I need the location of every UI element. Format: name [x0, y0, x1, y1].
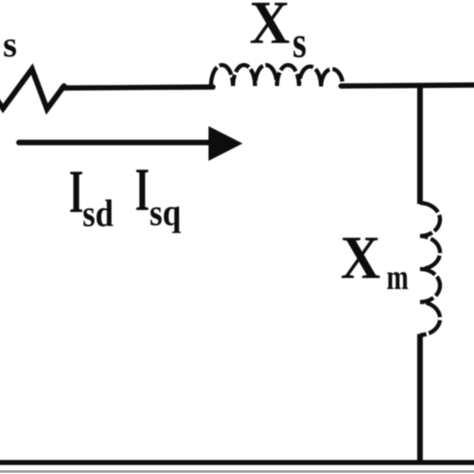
svg-text:sq: sq: [150, 192, 182, 234]
wire from Xm to bottom rail: [417, 334, 423, 462]
inductor Xs (coil, sketchy dashes): [211, 65, 343, 87]
bottom rail (bus line): [0, 460, 474, 465]
svg-text:X: X: [250, 0, 291, 57]
wire from resistor to inductor Xs: [62, 87, 213, 88]
svg-text:I: I: [135, 157, 150, 224]
svg-text:sd: sd: [83, 193, 114, 235]
resistor Rs (clipped at left edge): [0, 69, 64, 109]
svg-text:X: X: [341, 225, 381, 292]
current arrow Isd/Isq: [19, 140, 214, 146]
arrowhead: [209, 127, 242, 160]
svg-text:s: s: [293, 18, 307, 67]
svg-text:m: m: [387, 257, 409, 297]
grey scan artifact line at bottom: [0, 470, 474, 473]
svg-text:I: I: [69, 159, 84, 226]
junction node at top of vertical branch: [417, 86, 423, 204]
svg-text:s: s: [3, 25, 17, 65]
wire from Xs to right edge: [341, 85, 474, 86]
inductor Xm (vertical coil, sketchy dashes): [420, 203, 440, 335]
